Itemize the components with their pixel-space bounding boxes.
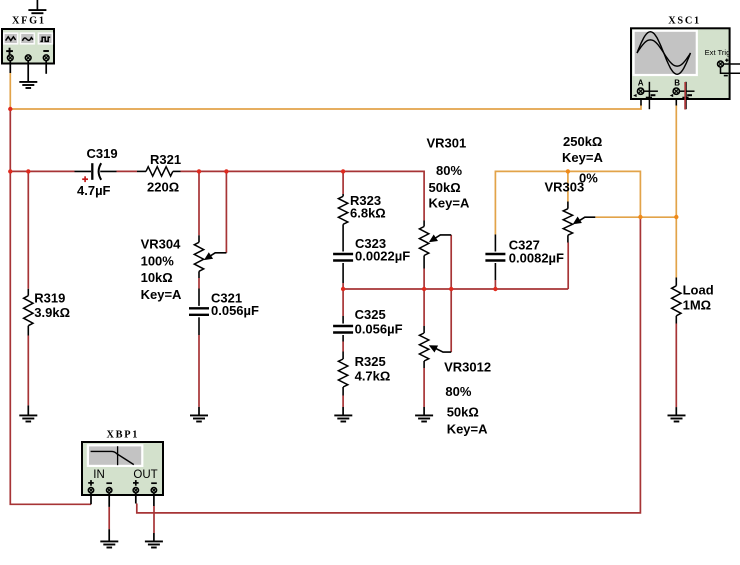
- svg-text:0.0022µF: 0.0022µF: [355, 249, 410, 264]
- svg-text:4.7µF: 4.7µF: [77, 183, 111, 198]
- svg-text:220Ω: 220Ω: [147, 180, 179, 195]
- svg-text:50kΩ: 50kΩ: [429, 180, 461, 195]
- svg-text:IN: IN: [93, 469, 105, 481]
- svg-text:0.056µF: 0.056µF: [355, 322, 403, 337]
- svg-text:Key=A: Key=A: [429, 196, 470, 211]
- svg-text:C325: C325: [355, 307, 386, 322]
- svg-text:R319: R319: [34, 291, 65, 306]
- svg-text:Load: Load: [683, 283, 714, 298]
- svg-text:XBP1: XBP1: [107, 429, 140, 440]
- svg-text:80%: 80%: [445, 384, 471, 399]
- svg-text:R325: R325: [355, 354, 386, 369]
- svg-text:VR303: VR303: [545, 180, 585, 195]
- svg-text:Key=A: Key=A: [447, 422, 488, 437]
- svg-text:VR3012: VR3012: [444, 360, 491, 375]
- svg-text:XSC1: XSC1: [668, 15, 701, 26]
- svg-text:OUT: OUT: [133, 469, 157, 481]
- svg-text:6.8kΩ: 6.8kΩ: [350, 205, 386, 220]
- svg-text:3.9kΩ: 3.9kΩ: [34, 305, 70, 320]
- svg-text:VR304: VR304: [141, 237, 182, 252]
- svg-text:Key=A: Key=A: [141, 287, 182, 302]
- svg-text:XFG1: XFG1: [12, 15, 46, 26]
- svg-text:R321: R321: [150, 152, 181, 167]
- svg-text:50kΩ: 50kΩ: [447, 405, 479, 420]
- svg-text:Key=A: Key=A: [562, 150, 603, 165]
- svg-text:B: B: [674, 79, 680, 88]
- svg-text:80%: 80%: [436, 163, 462, 178]
- svg-text:0.0082µF: 0.0082µF: [509, 251, 564, 266]
- svg-text:4.7kΩ: 4.7kΩ: [355, 369, 391, 384]
- svg-text:Ext Trig: Ext Trig: [705, 48, 731, 57]
- svg-text:0.056µF: 0.056µF: [211, 303, 259, 318]
- svg-text:1MΩ: 1MΩ: [683, 298, 711, 313]
- svg-text:A: A: [638, 79, 644, 88]
- svg-text:10kΩ: 10kΩ: [141, 270, 173, 285]
- svg-text:100%: 100%: [141, 254, 175, 269]
- svg-text:VR301: VR301: [427, 136, 467, 151]
- svg-text:C319: C319: [87, 146, 118, 161]
- svg-text:250kΩ: 250kΩ: [563, 134, 602, 149]
